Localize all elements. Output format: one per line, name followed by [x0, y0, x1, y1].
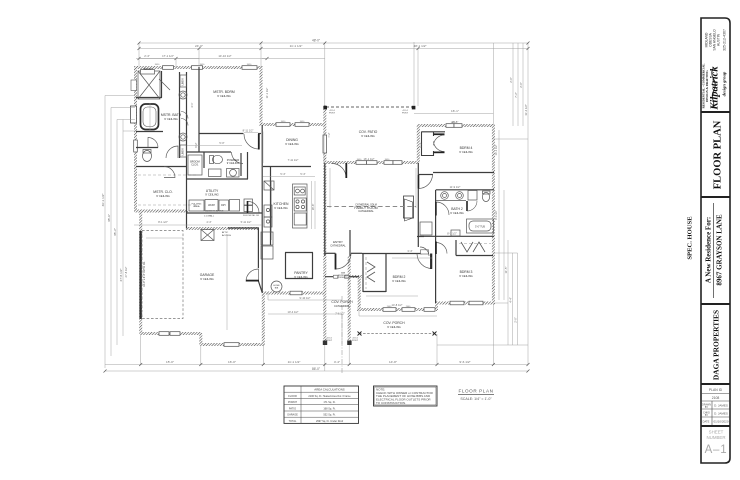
- window bdrm3 south 1: [450, 301, 464, 305]
- wall patio west: [323, 105, 326, 163]
- patio corner post right: [412, 106, 416, 110]
- svg-text:9' CEILING: 9' CEILING: [156, 194, 170, 198]
- svg-text:CLOS.: CLOS.: [191, 163, 199, 166]
- wall powder east: [247, 152, 249, 179]
- dim line utility hall: [134, 224, 262, 226]
- svg-text:CATHEDRAL: CATHEDRAL: [330, 244, 346, 248]
- svg-text:4'-1": 4'-1": [190, 102, 194, 107]
- svg-text:14'-8 1/2": 14'-8 1/2": [392, 303, 403, 307]
- svg-text:PLAN ID: PLAN ID: [709, 388, 723, 392]
- svg-text:3'-4": 3'-4": [407, 249, 412, 253]
- window dining north 2: [295, 123, 309, 127]
- kitchen island dim pair: [311, 181, 313, 229]
- svg-text:8'-1 1/2": 8'-1 1/2": [158, 220, 168, 224]
- wall garage east upper: [257, 228, 259, 268]
- wall vanity east: [186, 72, 188, 213]
- svg-text:86'-0": 86'-0": [312, 367, 320, 371]
- svg-text:9' CEILING: 9' CEILING: [459, 274, 473, 278]
- water heater platform: [420, 222, 432, 235]
- svg-text:FLOOR: FLOOR: [288, 395, 297, 398]
- svg-text:4'-4": 4'-4": [334, 360, 340, 364]
- linen box hall: [421, 250, 429, 254]
- shower door swing: [159, 79, 170, 90]
- svg-text:14'-8": 14'-8": [389, 360, 397, 364]
- svg-text:9' CEILING: 9' CEILING: [227, 162, 240, 165]
- svg-text:AUSTIN: AUSTIN: [717, 33, 721, 46]
- svg-text:8'-11 1/2": 8'-11 1/2": [243, 129, 254, 133]
- svg-text:27'-8 1/2": 27'-8 1/2": [124, 266, 128, 277]
- svg-text:2'-4": 2'-4": [144, 54, 150, 58]
- logo design firm: [702, 64, 727, 111]
- wall mstr bdrm east exterior: [260, 68, 263, 127]
- svg-text:7'-6 1/2": 7'-6 1/2": [335, 312, 345, 316]
- wall closet column: [240, 153, 242, 176]
- wall nook east jog: [262, 292, 265, 346]
- svg-text:D. JAMES: D. JAMES: [714, 412, 728, 416]
- windows: [134, 66, 483, 347]
- wall kitchen west: [261, 125, 263, 293]
- door mstr bath entry: [166, 146, 178, 158]
- svg-text:BDRM 4: BDRM 4: [460, 146, 473, 150]
- svg-text:BATH 2: BATH 2: [451, 207, 463, 211]
- dim line bdrm2 interior: [366, 258, 432, 296]
- svg-text:14'-10 1/2": 14'-10 1/2": [218, 54, 231, 58]
- vanity sink 2: [179, 133, 187, 141]
- svg-text:5'-0" TUB: 5'-0" TUB: [475, 227, 485, 229]
- cathedral ceiling break dashed: [327, 206, 416, 208]
- svg-text:9' CEILING: 9' CEILING: [450, 211, 464, 215]
- svg-text:9' CEILING: 9' CEILING: [392, 279, 406, 283]
- wall hall closets south: [228, 227, 259, 229]
- svg-text:COV. PORCH: COV. PORCH: [383, 321, 405, 325]
- svg-text:2997 Sq. Ft. Under Roof: 2997 Sq. Ft. Under Roof: [316, 420, 343, 423]
- svg-text:BDRM 3: BDRM 3: [460, 270, 473, 274]
- bath2 vanity counter: [436, 200, 466, 202]
- wall foyer north stub right: [351, 252, 362, 254]
- shower bench: [141, 70, 155, 75]
- shower mstr: [138, 71, 160, 99]
- svg-text:11'-4 1/2": 11'-4 1/2": [524, 104, 528, 116]
- svg-text:AREA CALCULATIONS: AREA CALCULATIONS: [314, 388, 345, 392]
- wall pantry north: [285, 252, 313, 254]
- mstr closet rod dashes: [138, 174, 197, 176]
- door utility: [248, 202, 259, 213]
- window mstr bdrm top 2: [242, 66, 257, 70]
- window bdrm4 north: [446, 124, 454, 128]
- svg-text:9' CEILING: 9' CEILING: [387, 325, 401, 329]
- svg-text:LINEN: LINEN: [183, 148, 185, 155]
- wall toilet room mstr: [136, 147, 158, 149]
- svg-text:1'-6 WALL: 1'-6 WALL: [204, 215, 215, 218]
- svg-text:BDRM 2: BDRM 2: [393, 275, 406, 279]
- title block frame: [701, 18, 730, 463]
- svg-text:POST: POST: [326, 340, 333, 342]
- wall foyer west upper: [324, 163, 326, 256]
- window mstr bdrm top 1: [192, 66, 203, 70]
- dim line top row2: [139, 48, 528, 50]
- exterior walls hatched: [134, 66, 495, 346]
- wall pantry west: [285, 253, 287, 280]
- linen cab top: [180, 75, 187, 87]
- svg-text:5'-0": 5'-0": [219, 141, 224, 145]
- svg-text:7'-2": 7'-2": [327, 132, 331, 137]
- svg-text:CABINETS ABOVE: CABINETS ABOVE: [205, 210, 225, 213]
- svg-text:POST: POST: [329, 113, 336, 115]
- porch centerline: [341, 296, 343, 374]
- wall bath2 west: [435, 190, 437, 236]
- door foyer from family: [336, 254, 352, 270]
- wall bdrm2 south jog: [435, 302, 438, 310]
- door linen hall: [420, 247, 429, 256]
- wall bdrm4 south: [433, 172, 494, 174]
- wall bdrm3 closet south: [456, 255, 493, 257]
- wall powder north: [186, 151, 231, 153]
- svg-text:9' CEILING: 9' CEILING: [361, 134, 375, 138]
- wall shower south: [136, 97, 162, 99]
- bath2 toilet: [482, 192, 489, 201]
- svg-text:BENCH: BENCH: [144, 68, 153, 71]
- bdrm3 closet rod: [459, 243, 491, 245]
- dim left verticals: [105, 96, 123, 369]
- svg-text:AREA: AREA: [194, 205, 200, 208]
- svg-text:11'-1 1/2": 11'-1 1/2": [290, 44, 303, 48]
- wall pantry east: [312, 253, 314, 280]
- bdrm2 closet rod: [365, 257, 367, 289]
- wall south kitchen wing: [200, 343, 265, 346]
- wall nook south: [262, 292, 326, 295]
- drawing title FLOOR PLAN scale: [458, 389, 494, 402]
- washer: [205, 200, 218, 212]
- kitchen west counter edge: [270, 181, 272, 240]
- wall bath2 south: [418, 235, 494, 237]
- hall cubby boxes: [244, 199, 253, 205]
- wall garage south: [140, 332, 202, 335]
- wall broom closet east / powder west: [203, 152, 205, 168]
- window garage south 2: [170, 332, 180, 336]
- svg-text:10'-4 1/2": 10'-4 1/2": [288, 310, 299, 314]
- fireplace niche box: [404, 196, 414, 218]
- svg-text:9'-6 1/2": 9'-6 1/2": [459, 360, 470, 364]
- window nook south: [290, 291, 302, 295]
- svg-text:9' CEILING: 9' CEILING: [217, 94, 231, 98]
- svg-text:MSTR. BDRM: MSTR. BDRM: [213, 90, 235, 94]
- bdrm4 closet walls: [422, 132, 446, 157]
- svg-text:DRY: DRY: [221, 205, 226, 207]
- wall foyer east: [349, 230, 351, 256]
- wall entry porch west column strip: [323, 163, 326, 344]
- wall tub deck: [136, 131, 163, 133]
- island lower cab: [294, 213, 306, 225]
- dim line top row3: [139, 58, 267, 60]
- window garage south 1: [159, 332, 169, 336]
- window kitchen wing south: [224, 343, 239, 347]
- svg-text:14'-1 1/2": 14'-1 1/2": [494, 144, 498, 155]
- wall bdrm2 west porch strip: [358, 276, 361, 310]
- svg-text:8'-1 1/2": 8'-1 1/2": [447, 232, 457, 236]
- svg-text:DATE: DATE: [703, 419, 710, 423]
- svg-text:171 Sq. Ft.: 171 Sq. Ft.: [323, 401, 336, 404]
- svg-text:16'-0": 16'-0": [228, 360, 236, 364]
- svg-text:MSTR. BATH: MSTR. BATH: [161, 113, 182, 117]
- svg-text:NUMBER: NUMBER: [706, 435, 725, 440]
- dim line porch interior: [359, 310, 437, 316]
- wall bdrm3 closet west: [455, 240, 457, 256]
- garage overhead door: [139, 231, 141, 319]
- svg-text:15'-0": 15'-0": [166, 360, 174, 364]
- door bdrm3: [436, 243, 447, 254]
- svg-text:TO CONSTRUCTION.: TO CONSTRUCTION.: [376, 401, 406, 405]
- dim line family interior: [330, 168, 416, 208]
- wall foyer south segments: [325, 276, 359, 278]
- wall left side bath wing: [134, 66, 137, 213]
- svg-text:2106 Sq. Ft. Heated Area Out /: 2106 Sq. Ft. Heated Area Out / Frame: [308, 395, 351, 398]
- door garage entry: [246, 269, 259, 282]
- svg-text:LINEN: LINEN: [183, 78, 185, 85]
- svg-text:2'-0": 2'-0": [514, 317, 518, 323]
- vanity hall double doors: [181, 112, 188, 126]
- utility bench: [230, 200, 240, 212]
- svg-text:A–1: A–1: [705, 444, 728, 456]
- divider 3: [701, 303, 730, 305]
- svg-text:11'-1 1/2": 11'-1 1/2": [288, 360, 301, 364]
- svg-text:9' CEILING: 9' CEILING: [200, 277, 214, 281]
- svg-text:CATHEDRAL: CATHEDRAL: [334, 304, 351, 308]
- attic access marker: [201, 230, 214, 241]
- interior dim lines: [136, 42, 414, 131]
- svg-text:11'-1 1/2": 11'-1 1/2": [265, 88, 269, 99]
- svg-text:PANTRY: PANTRY: [294, 271, 308, 275]
- svg-text:2'-0": 2'-0": [519, 82, 523, 88]
- svg-text:5'-11 1/2": 5'-11 1/2": [241, 220, 252, 224]
- dim line dining interior: [263, 132, 324, 164]
- svg-text:COV. PATIO: COV. PATIO: [359, 130, 378, 134]
- svg-text:8'-4 1/2": 8'-4 1/2": [494, 210, 498, 220]
- svg-text:9' CEILING: 9' CEILING: [285, 142, 299, 146]
- wall mstr bdrm west lower: [198, 126, 200, 152]
- wall garage east lower stub: [258, 281, 262, 292]
- dim line nook interior: [268, 293, 342, 344]
- svg-text:GARAGE: GARAGE: [287, 414, 298, 417]
- wall top left wing: [134, 66, 263, 69]
- svg-text:11'-5": 11'-5": [504, 267, 508, 274]
- door bath2 wc compartment: [466, 201, 468, 211]
- svg-text:16'-1": 16'-1": [451, 109, 459, 113]
- wall powder south utility north: [186, 178, 248, 180]
- divider 5: [701, 425, 730, 427]
- kitchen island: [293, 184, 308, 228]
- wall bottom mstr closet: [134, 210, 188, 213]
- porch post footing left: [324, 342, 327, 346]
- door mstr closet: [164, 167, 175, 178]
- broom closet box: [188, 155, 202, 175]
- svg-text:SCALE: 1/4" = 1'-0": SCALE: 1/4" = 1'-0": [460, 397, 492, 401]
- dim line right inner vertical: [499, 130, 504, 300]
- svg-text:5'-2": 5'-2": [419, 142, 423, 147]
- svg-text:9'-10 1/2": 9'-10 1/2": [300, 296, 311, 300]
- svg-text:SPEC. HOUSE: SPEC. HOUSE: [687, 216, 694, 260]
- wall bdrm2 closet east: [385, 254, 387, 293]
- window bdrm3 south 2: [469, 301, 483, 305]
- svg-text:35'-2": 35'-2": [113, 228, 117, 236]
- dryer: [219, 200, 229, 211]
- patio beam dashed: [326, 106, 413, 108]
- wall bdrm2 closet south: [363, 291, 386, 293]
- svg-text:16'-8": 16'-8": [311, 204, 315, 211]
- powder cabinet: [209, 169, 222, 177]
- tub mstr: [141, 104, 159, 130]
- wall utility garage connector: [186, 213, 188, 229]
- note box: [374, 386, 438, 406]
- porch corner post marker right: [433, 332, 437, 336]
- wall ovens: [264, 205, 272, 217]
- svg-text:24'-0": 24'-0": [195, 44, 203, 48]
- svg-text:PATIO: PATIO: [289, 407, 296, 410]
- svg-text:552 Sq. Ft.: 552 Sq. Ft.: [323, 414, 336, 417]
- svg-text:46'-1 1/2": 46'-1 1/2": [101, 193, 105, 206]
- svg-text:UTILITY: UTILITY: [206, 189, 219, 193]
- svg-text:4'-4": 4'-4": [206, 220, 211, 224]
- wall bath2 north: [436, 189, 494, 191]
- dim line bottom row: [105, 364, 528, 366]
- bifold bdrm2 closet: [367, 262, 375, 282]
- dim line bdrm4 top: [414, 113, 493, 115]
- sheet number: [705, 430, 728, 457]
- svg-text:9' CEILING: 9' CEILING: [164, 117, 178, 121]
- svg-text:COV. PORCH: COV. PORCH: [331, 300, 353, 304]
- wall family room north windows row: [324, 161, 419, 164]
- svg-text:3068 METAL DR: 3068 METAL DR: [243, 214, 260, 217]
- wall foyer north stub: [325, 252, 336, 254]
- dim ext top verticals: [139, 43, 528, 126]
- svg-text:27'-8 1/2": 27'-8 1/2": [119, 268, 123, 281]
- dim line right lower: [437, 240, 528, 345]
- svg-text:DESIGN & DRAFTING: DESIGN & DRAFTING: [705, 70, 709, 102]
- bath2 linen low box: [451, 230, 460, 236]
- window mstr bath left wall: [134, 140, 138, 152]
- bath2 tub: [467, 219, 494, 233]
- svg-text:16'-1 1/2": 16'-1 1/2": [364, 157, 375, 161]
- linen cab bottom: [180, 145, 187, 157]
- svg-text:4'-4": 4'-4": [509, 297, 513, 303]
- svg-text:MSTR. CLO.: MSTR. CLO.: [153, 190, 172, 194]
- wall mstr bdrm west: [198, 67, 200, 126]
- wall entry porch east column strip: [348, 256, 351, 344]
- svg-text:DINING: DINING: [286, 138, 298, 142]
- svg-text:9' CEILING: 9' CEILING: [205, 193, 219, 197]
- wall family east / hall west: [417, 163, 419, 247]
- svg-text:FLOOR PLAN: FLOOR PLAN: [458, 389, 493, 394]
- window bdrm2 south 1: [383, 308, 396, 312]
- powder vanity sink: [227, 169, 240, 178]
- wall garage west: [139, 212, 142, 334]
- svg-text:KITCHEN: KITCHEN: [274, 202, 289, 206]
- wall stub entry right: [351, 275, 362, 278]
- svg-text:17'-1 1/2": 17'-1 1/2": [162, 54, 174, 58]
- svg-text:7'-11 1/2": 7'-11 1/2": [288, 158, 299, 162]
- entry door sidelites: [334, 275, 339, 278]
- svg-text:BIB: BIB: [275, 288, 279, 290]
- plan id table: [701, 394, 730, 426]
- window bdrm2 south 3: [424, 308, 435, 312]
- svg-text:TOTAL: TOTAL: [289, 420, 297, 423]
- divider 4: [701, 383, 730, 385]
- door bdrm4: [419, 175, 433, 189]
- svg-text:DAGA PROPERTIES: DAGA PROPERTIES: [712, 310, 721, 380]
- svg-text:2'-0": 2'-0": [509, 77, 513, 83]
- door bdrm2: [417, 254, 432, 269]
- niche box left wall upper: [131, 80, 137, 91]
- vanity sink 1: [179, 91, 187, 99]
- contact info firm cities: [705, 29, 727, 51]
- door powder: [232, 152, 244, 164]
- powder toilet: [213, 155, 223, 163]
- mud closet boxes: [261, 232, 273, 245]
- wall utility south: [187, 212, 263, 214]
- svg-text:16'-0" x 8'-0" OVHD DR.: 16'-0" x 8'-0" OVHD DR.: [143, 261, 146, 287]
- bdrm4 closet double doors: [434, 133, 445, 135]
- nook hose bib circle: [271, 281, 282, 292]
- wall shower east: [161, 71, 163, 98]
- wall bdrm4 north: [417, 124, 495, 127]
- svg-text:GARAGE: GARAGE: [200, 273, 215, 277]
- wall bdrm2 south: [357, 308, 437, 311]
- dim ticks top: [138, 42, 530, 61]
- wall bdrm4 closet south hall: [418, 174, 433, 176]
- svg-text:SHEET: SHEET: [709, 430, 724, 435]
- bath2 sink 1: [441, 192, 449, 200]
- window family north 3: [384, 161, 393, 165]
- svg-text:168 Sq. Ft.: 168 Sq. Ft.: [323, 407, 336, 410]
- svg-text:POST: POST: [402, 113, 409, 115]
- dim ext bottom verticals: [141, 126, 528, 371]
- bath2 sink 2: [456, 192, 464, 200]
- wall east exterior: [492, 125, 495, 304]
- wall vanity west partial: [179, 72, 181, 158]
- counter kitchen west band: [270, 167, 272, 245]
- wall bdrm2 north: [362, 253, 422, 255]
- svg-text:FLOOR PLAN: FLOOR PLAN: [713, 120, 724, 189]
- dim ticks bottom: [104, 363, 530, 373]
- wall hall east bdrm23: [435, 236, 437, 303]
- wall mstr bdrm south left part: [199, 133, 244, 135]
- window dining north 1: [276, 123, 290, 127]
- door bath2: [436, 202, 449, 215]
- svg-text:PORCH: PORCH: [288, 401, 297, 404]
- svg-text:ENTRY: ENTRY: [333, 240, 343, 244]
- wall bdrm3 south: [435, 302, 495, 305]
- svg-text:design group: design group: [722, 71, 727, 96]
- kitchen top dim line: [263, 176, 315, 178]
- svg-text:5'-4": 5'-4": [280, 172, 285, 176]
- garage attic dashed rect: [142, 231, 183, 319]
- svg-text:325-212-4367: 325-212-4367: [723, 29, 727, 51]
- dim line overall top: [139, 42, 528, 44]
- svg-text:POST: POST: [352, 340, 359, 342]
- island cooktop: [294, 198, 306, 211]
- svg-text:WASH: WASH: [208, 204, 215, 207]
- dim left stubs: [105, 96, 528, 372]
- wall garage north: [186, 227, 259, 230]
- island sink: [294, 187, 305, 195]
- dim line hall interior: [187, 133, 258, 146]
- svg-text:48'-1 1/2": 48'-1 1/2": [413, 44, 426, 48]
- door family to patio: [332, 164, 346, 178]
- svg-text:5'-4": 5'-4": [300, 172, 305, 176]
- wall mstr bdrm south right stub: [258, 133, 261, 135]
- window family north 2: [356, 161, 367, 165]
- svg-text:W SIDELITES: W SIDELITES: [337, 277, 350, 279]
- svg-text:9' CEILING: 9' CEILING: [274, 206, 288, 210]
